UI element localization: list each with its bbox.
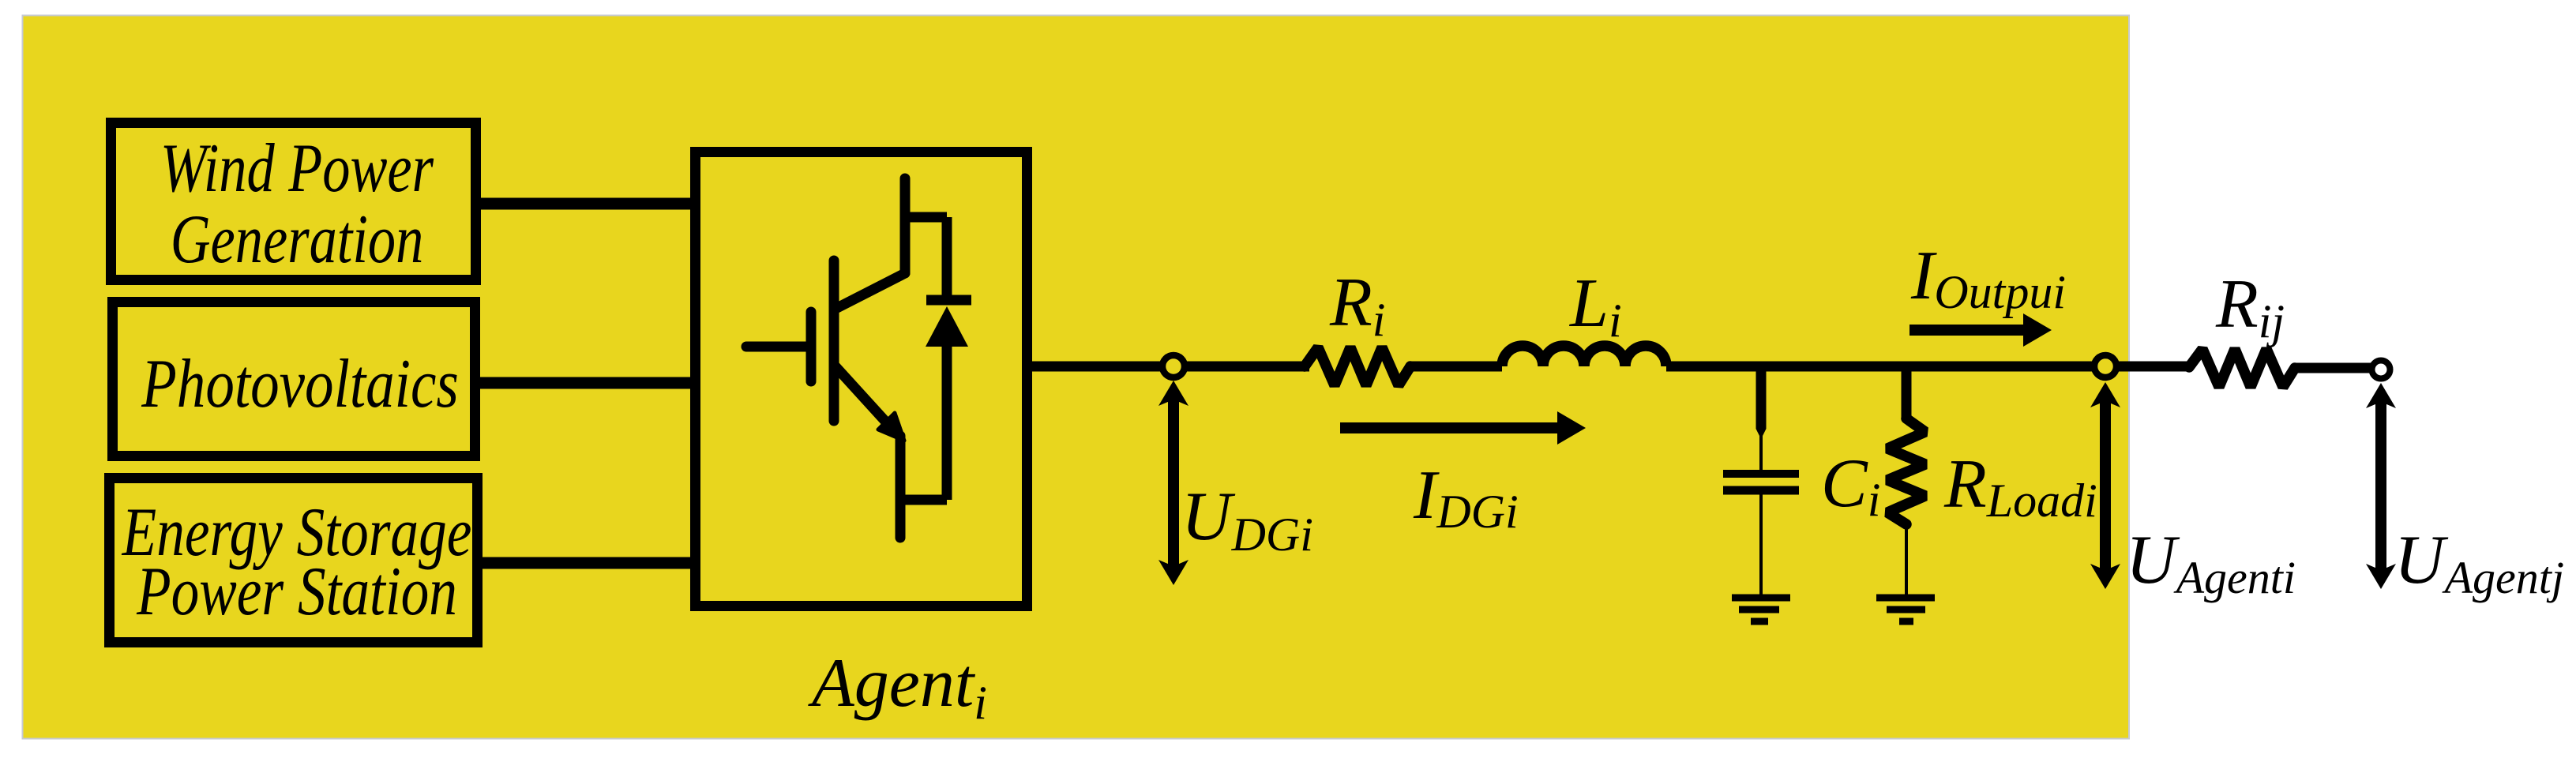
IGBT Q1: main bar	[829, 261, 839, 421]
diode D1: lower lead	[942, 347, 952, 500]
ground GND2 bar1	[1876, 595, 1935, 602]
wire agent output to R_i	[1032, 362, 1309, 372]
capacitor C_i: bottom plate	[1723, 486, 1799, 495]
svg-text:Photovoltaics: Photovoltaics	[141, 346, 459, 422]
U_Agentj arrowhead top	[2366, 383, 2396, 408]
diode D1: triangle	[926, 306, 968, 347]
ground GND2 bar3	[1899, 618, 1913, 625]
wire R_ij to node C	[2295, 363, 2381, 373]
resistor R_i	[1305, 347, 1410, 385]
wire box1 to agent	[475, 198, 695, 210]
U_Agenti arrowhead top	[2090, 382, 2120, 407]
U_Agenti arrowhead bottom	[2090, 564, 2120, 589]
node A (U_DGi node)	[1162, 355, 1185, 377]
IGBT Q1: gate bar	[806, 312, 817, 381]
IGBT Q1: emitter lead	[896, 436, 906, 538]
I_Outpui arrowhead	[2023, 313, 2052, 347]
capacitor C_i: top plate	[1723, 470, 1799, 478]
wire L_i to R_ij junctions	[1666, 362, 2189, 372]
wire box2 to agent	[475, 377, 695, 389]
IGBT Q1: collector diagonal	[837, 273, 905, 308]
ground GND1 bar3	[1751, 618, 1768, 625]
resistor R_Loadi: zigzag	[1887, 418, 1925, 524]
IGBT Q1: emitter diagonal	[834, 365, 890, 426]
wire R_i to L_i	[1410, 362, 1502, 372]
resistor R_Loadi: top stub	[1902, 371, 1912, 418]
capacitor C_i: thin lead lower	[1759, 494, 1763, 595]
capacitor C_i: taper tip	[1756, 429, 1767, 439]
resistor R_ij	[2189, 349, 2295, 387]
inductor L_i	[1502, 346, 1666, 366]
I_DGi arrowhead	[1557, 411, 1586, 445]
U_DGi arrowhead bottom	[1158, 560, 1188, 585]
box Wind Power Generation text	[160, 130, 434, 278]
U_DGi arrowhead top	[1158, 381, 1188, 406]
diode D1: top jog wire	[905, 212, 947, 223]
svg-text:Agenti: Agenti	[808, 645, 987, 729]
diode D1: upper lead	[942, 217, 952, 300]
U_DGi arrow shaft	[1168, 399, 1179, 567]
ground GND1 bar1	[1732, 595, 1790, 602]
box Photovoltaics	[113, 302, 475, 456]
IGBT Q1: collector lead	[900, 178, 911, 273]
I_Outpui arrow shaft	[1909, 325, 2025, 336]
svg-text:Wind Power: Wind Power	[160, 130, 434, 207]
box Wind Power Generation	[111, 123, 476, 280]
IGBT Q1: emitter arrowhead	[878, 413, 904, 441]
converter box U1 (Agent_i)	[696, 152, 1027, 606]
svg-text:Power Station: Power Station	[136, 553, 457, 630]
wire box3 to agent	[477, 557, 695, 569]
I_DGi arrow shaft	[1340, 422, 1559, 433]
yellow panel	[23, 16, 2130, 739]
diode D1: bottom jog wire	[900, 495, 947, 505]
node B (Agent i terminal)	[2094, 355, 2116, 377]
box Energy Storage Power Station text	[122, 494, 472, 630]
box Energy Storage Power Station	[110, 478, 478, 643]
ground GND1 bar2	[1739, 606, 1779, 614]
IGBT Q1: gate lead	[746, 342, 806, 352]
capacitor C_i: top stub	[1756, 371, 1767, 429]
capacitor C_i: thin lead upper	[1759, 433, 1763, 471]
U_Agentj arrowhead bottom	[2366, 564, 2396, 589]
ground GND2 bar2	[1887, 606, 1925, 614]
U_Agenti arrow shaft	[2100, 399, 2111, 571]
resistor R_Loadi: thin lead	[1905, 524, 1908, 595]
U_Agentj arrow shaft	[2375, 400, 2386, 571]
svg-text:Generation: Generation	[171, 201, 424, 278]
diode D1: cathode bar	[926, 295, 971, 306]
node C (Agent j terminal)	[2372, 361, 2390, 379]
